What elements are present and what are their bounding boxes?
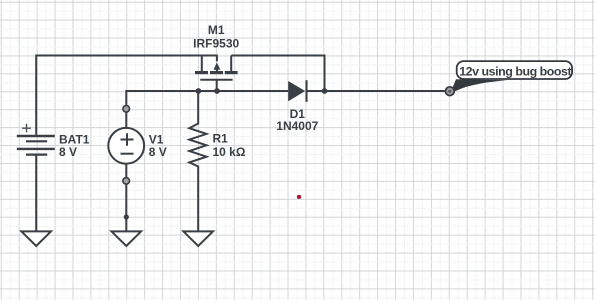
junction: R1 at gate rail — [196, 88, 202, 94]
net flag tail — [451, 79, 508, 93]
junction: gate at rail — [214, 88, 220, 94]
wire: M1 drain across and down to output rail — [231, 56, 324, 92]
svg-text:8 V: 8 V — [149, 145, 167, 159]
net flag: 12v using bug boost — [457, 61, 572, 79]
svg-text:IRF9530: IRF9530 — [193, 36, 239, 50]
junction: drain wire at output rail — [322, 88, 328, 94]
transistor M1 (P-MOSFET IRF9530) — [195, 56, 238, 92]
wire: V1 top up and across gate rail to diode anode — [126, 91, 288, 128]
red marker dot — [297, 195, 301, 199]
svg-text:12v using bug boost: 12v using bug boost — [459, 65, 571, 79]
terminal dot V1 bottom — [123, 178, 130, 185]
ground (R1) — [183, 231, 213, 246]
svg-text:10 kΩ: 10 kΩ — [213, 145, 246, 159]
ground (V1) — [112, 231, 142, 246]
svg-text:1N4007: 1N4007 — [276, 119, 318, 133]
diode D1 — [288, 80, 306, 102]
battery BAT1 — [17, 124, 55, 155]
terminal dot V1 top — [123, 106, 130, 113]
junction on V1 ground wire — [124, 214, 129, 219]
voltage source V1 — [108, 128, 144, 164]
ground (battery) — [21, 231, 51, 246]
svg-text:8 V: 8 V — [59, 145, 77, 159]
wire: battery positive up and across to M1 source — [36, 56, 217, 135]
svg-text:R1: R1 — [213, 132, 229, 146]
wire: battery negative to ground — [35, 155, 37, 231]
node: output terminal — [445, 87, 454, 96]
wire: diode cathode to output terminal — [307, 90, 445, 92]
resistor R1 — [189, 91, 206, 231]
wire: V1 bottom to ground — [125, 164, 127, 232]
svg-text:M1: M1 — [208, 23, 225, 37]
